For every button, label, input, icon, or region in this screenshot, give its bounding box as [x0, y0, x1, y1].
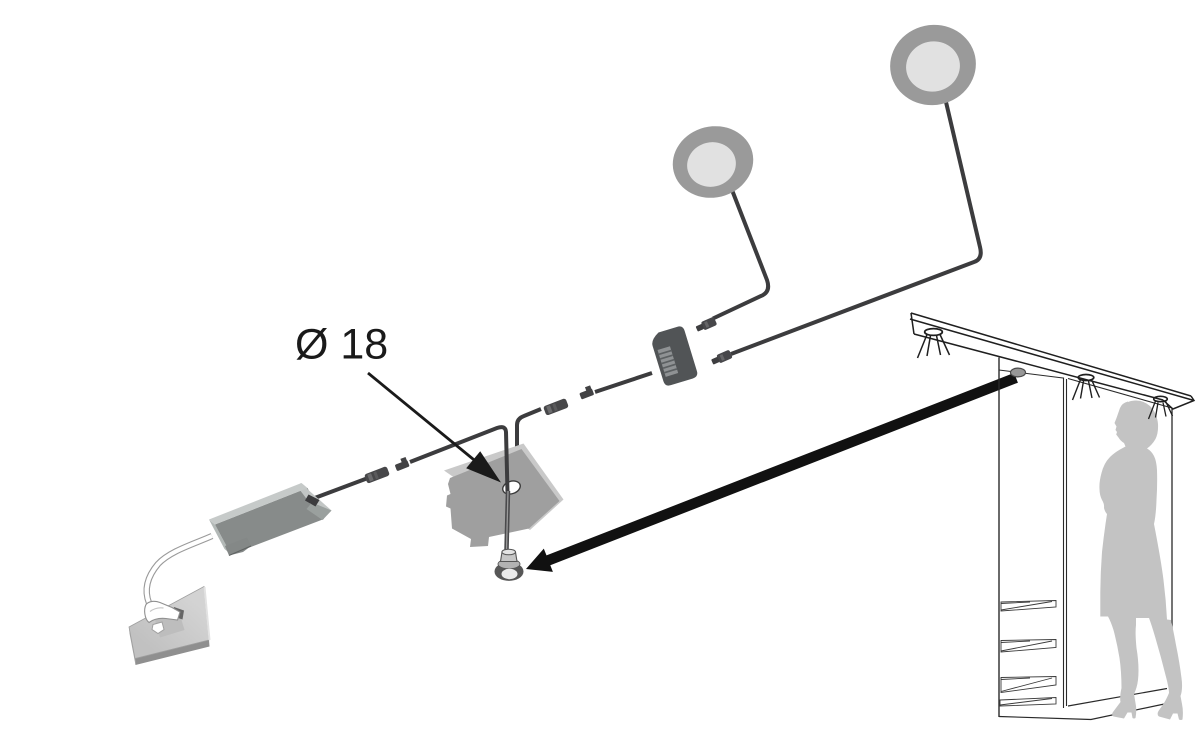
cabinet left side wall line [998, 358, 1000, 718]
wire cable from downlight 2 to connector D [731, 102, 981, 354]
cabinet bottom board [1000, 698, 1056, 707]
hole Ø18 in plate [501, 479, 522, 496]
downlight 1 [665, 118, 761, 206]
wire cable from connector B female to sensor (over the plate) [517, 409, 541, 452]
connector B female barrel [543, 398, 569, 416]
woman silhouette [1099, 400, 1182, 720]
euro plug body [145, 601, 180, 622]
sensor flange ring [495, 562, 524, 581]
shelf 2 [1001, 640, 1056, 653]
wire cable from driver to connector A female [312, 478, 368, 499]
cabinet right side edge [1171, 408, 1173, 702]
driver power supply top face [209, 483, 308, 525]
connector C plug on downlight 1 cable [695, 317, 717, 334]
sensor collar [501, 552, 518, 562]
scene spotlight 2 with beam rays [1073, 375, 1100, 401]
driver end cap [300, 483, 332, 520]
plug shadow on plate [155, 615, 185, 638]
downlight 2 [883, 17, 984, 113]
shelf 3 [1001, 677, 1056, 693]
cable from hole down to sensor detail [507, 491, 509, 550]
sensor flange top face [498, 559, 520, 569]
connector B male plug [578, 385, 594, 399]
cabinet top front edge [999, 370, 1063, 378]
wire cable from downlight 1 to connector C [713, 190, 768, 319]
connector A male plug [393, 457, 409, 471]
scene spotlight 3 with beam rays [1149, 396, 1173, 419]
driver left end cap [209, 520, 231, 555]
big arrow from scene sensor to sensor detail [526, 373, 1018, 572]
wire cable from connector A male down into hole (drawn over plate) [410, 427, 508, 492]
scene sensor (active downlight) under cabinet top [1011, 368, 1026, 377]
white mains cable from driver to plug [147, 536, 212, 603]
driver cable exit [305, 495, 320, 507]
floor line under cabinet [999, 703, 1169, 720]
sliding door bottom edge [1068, 689, 1167, 707]
wire cable from distributor down-left to connector B male [595, 373, 652, 392]
connector D plug on downlight 2 cable [710, 350, 732, 367]
sensor lens [502, 569, 518, 579]
scene spotlight 1 with beam rays [918, 329, 950, 358]
cabinet middle divider lines [1063, 378, 1065, 709]
sliding door top edge [1068, 379, 1172, 409]
mounting plate with Ø18 hole (light bevel edges) [444, 444, 564, 531]
connector A female barrel [364, 466, 390, 484]
shelf 1 [1001, 601, 1056, 612]
socket wall plate (diamond) [129, 587, 210, 666]
leader arrow from label to hole [368, 373, 501, 483]
socket hole shadow [172, 607, 184, 620]
light panel (canopy board) lines [910, 313, 1194, 409]
svg-text:Ø 18: Ø 18 [295, 321, 388, 369]
driver front face [215, 488, 324, 555]
distributor block [649, 325, 698, 387]
mounting plate gray face [446, 449, 560, 547]
driver mounting tab [225, 538, 251, 556]
